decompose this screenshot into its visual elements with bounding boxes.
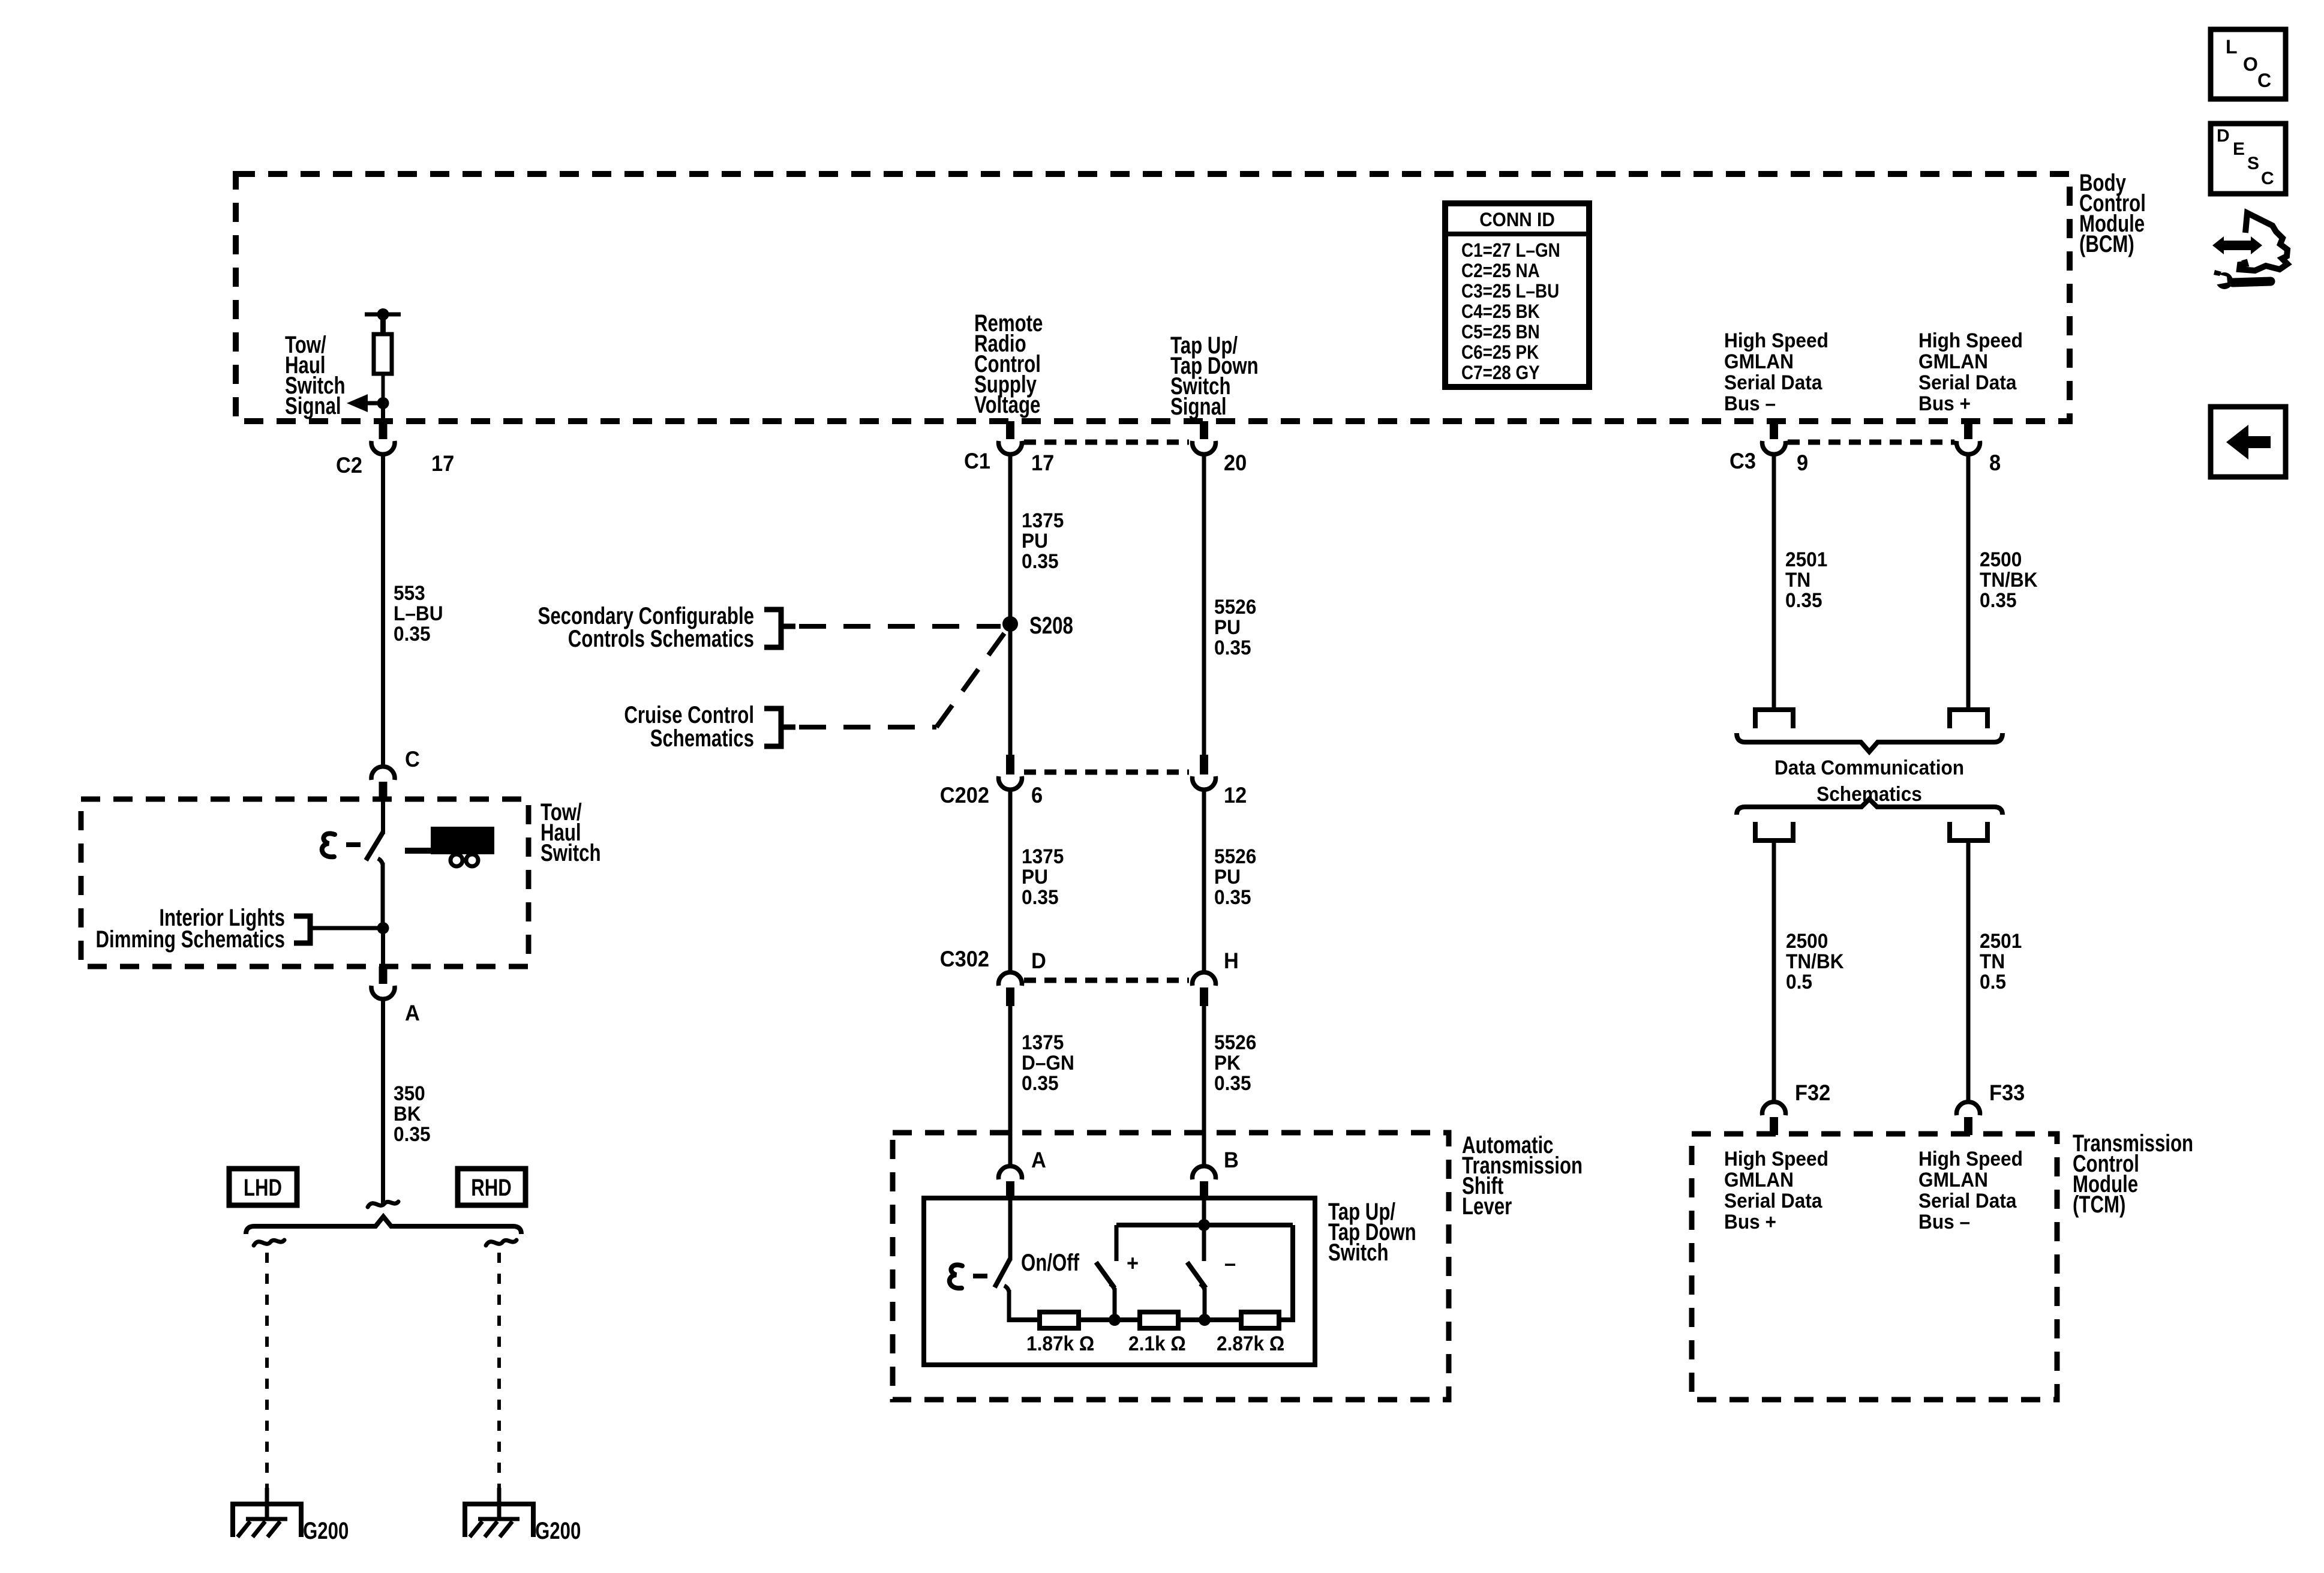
wire 5526 PK lower [1202, 1006, 1206, 1164]
trailer icon tongue [405, 848, 433, 854]
contact hook [378, 858, 383, 864]
svg-text:C1=27 L–GN: C1=27 L–GN [1461, 240, 1560, 261]
schematic navigation icon double arrow [2212, 236, 2262, 254]
wire node to C2 pin [381, 403, 385, 424]
svg-text:C1: C1 [964, 449, 990, 473]
plus switch blade [1096, 1262, 1115, 1288]
svg-text:Serial Data: Serial Data [1724, 1189, 1822, 1212]
interior lights callout bracket [294, 916, 310, 943]
svg-text:G200: G200 [535, 1517, 581, 1544]
signal arrow line [368, 401, 383, 406]
junction dot rail 1 [1109, 1314, 1121, 1326]
svg-text:0.35: 0.35 [1785, 589, 1822, 611]
wire 350 BK 0.35 [381, 998, 385, 1204]
ground bar [478, 1517, 520, 1521]
connector C3 pin 8 arc [1957, 441, 1980, 454]
ground bar [246, 1517, 287, 1521]
svg-text:TN/BK: TN/BK [1786, 950, 1844, 972]
svg-text:GMLAN: GMLAN [1724, 1168, 1794, 1191]
connector C1 arc [999, 441, 1022, 454]
svg-text:A: A [1031, 1148, 1046, 1172]
wire 1375 PU upper [1008, 454, 1013, 766]
svg-text:PU: PU [1214, 865, 1241, 888]
wire 2501 TN lower [1966, 840, 1971, 1101]
connector F32 arc [1762, 1102, 1786, 1115]
svg-text:2.1k Ω: 2.1k Ω [1128, 1332, 1186, 1355]
RHD dashed wire [497, 1253, 501, 1489]
tow/haul switch blade [366, 832, 383, 860]
BCM internal supply bar [365, 313, 401, 317]
svg-text:5526: 5526 [1214, 595, 1256, 618]
mechanical link dash [346, 842, 361, 847]
trailer icon wheel right [466, 854, 478, 866]
svg-text:9: 9 [1797, 451, 1808, 475]
svg-text:Dimming Schematics: Dimming Schematics [96, 926, 285, 953]
svg-text:0.35: 0.35 [1022, 1071, 1059, 1094]
svg-text:Schematics: Schematics [650, 725, 754, 752]
connector C202 pin 12 arc [1193, 776, 1216, 789]
ground hatch 1 [470, 1521, 482, 1537]
dashed callout line to S208 [799, 624, 1001, 629]
svg-text:A: A [405, 1001, 420, 1025]
connector C302 pin H arc [1193, 972, 1216, 986]
right rail riser [1290, 1225, 1295, 1322]
svg-text:(BCM): (BCM) [2079, 230, 2134, 257]
svg-text:F32: F32 [1795, 1080, 1830, 1105]
svg-text:GMLAN: GMLAN [1918, 350, 1988, 373]
svg-text:Bus –: Bus – [1918, 1210, 1970, 1233]
svg-text:Serial Data: Serial Data [1918, 371, 2017, 394]
Automatic Transmission Shift Lever dashed box [893, 1133, 1449, 1400]
secondary configurable callout bracket [764, 610, 781, 647]
svg-text:High Speed: High Speed [1918, 1147, 2023, 1170]
connector A pin terminal [379, 966, 388, 984]
connector C3 pin 8 terminal [1964, 421, 1972, 439]
svg-text:1.87k Ω: 1.87k Ω [1026, 1332, 1094, 1355]
signal junction node [377, 397, 389, 409]
wire B into switch [1202, 1199, 1206, 1261]
svg-text:L–BU: L–BU [394, 602, 443, 625]
svg-text:2.87k Ω: 2.87k Ω [1217, 1332, 1284, 1355]
ground bracket [233, 1504, 301, 1537]
connector B (shift lever) arc [1193, 1166, 1216, 1179]
svg-text:GMLAN: GMLAN [1724, 350, 1794, 373]
svg-text:2500: 2500 [1980, 548, 2022, 571]
svg-text:G200: G200 [303, 1517, 349, 1544]
LHD dashed wire [265, 1253, 269, 1489]
connector C202 pin 6 arc [999, 776, 1022, 789]
ground bracket [465, 1504, 533, 1537]
resistor pull-up in BCM [374, 334, 392, 374]
wire supply bar to resistor [380, 314, 386, 336]
svg-text:PU: PU [1022, 865, 1048, 888]
tow/haul switch mechanical link symbol [322, 833, 335, 857]
svg-text:1375: 1375 [1022, 1031, 1064, 1053]
trailer icon wheel left [451, 854, 463, 866]
svg-text:F33: F33 [1989, 1080, 2025, 1105]
Transmission Control Module (TCM) dashed box [1692, 1134, 2057, 1400]
svg-text:C7=28 GY: C7=28 GY [1461, 362, 1540, 383]
svg-text:Data Communication: Data Communication [1774, 756, 1964, 779]
wire 553 L-BU 0.35 [381, 454, 385, 766]
Body Control Module (BCM) dashed box [236, 174, 2070, 421]
svg-text:PK: PK [1214, 1051, 1241, 1074]
svg-text:17: 17 [1031, 451, 1054, 475]
bundle terminal lower right [1950, 822, 1987, 840]
connector C302 pin H terminal [1200, 987, 1208, 1006]
svg-text:5526: 5526 [1214, 1031, 1256, 1053]
svg-text:C4=25 BK: C4=25 BK [1461, 301, 1540, 322]
tow/haul switch lower contact [381, 863, 385, 930]
minus contact hook [1200, 1284, 1205, 1290]
svg-text:RHD: RHD [471, 1174, 512, 1201]
CONN ID table box [1445, 203, 1589, 387]
wire 5526 PU middle [1202, 789, 1206, 972]
plus switch upper contact [1115, 1225, 1119, 1261]
svg-text:0.35: 0.35 [394, 622, 431, 645]
connector F33 arc [1957, 1102, 1980, 1115]
dotted connector link C3 [1788, 440, 1954, 445]
svg-text:E: E [2233, 139, 2245, 159]
plus switch lower contact [1113, 1288, 1117, 1320]
LOC legend box [2211, 29, 2286, 99]
svg-text:0.35: 0.35 [1214, 1071, 1251, 1094]
Tap Up/Tap Down Switch inner box [924, 1198, 1315, 1365]
connector C2 pin 17 terminal [379, 421, 388, 439]
trailer icon body [431, 827, 494, 854]
svg-text:Voltage: Voltage [974, 391, 1040, 418]
svg-text:0.35: 0.35 [394, 1122, 431, 1145]
connector C1 pin 20 arc [1193, 441, 1216, 454]
connector C arc [371, 767, 395, 780]
schematic navigation icon wrench [2216, 272, 2233, 289]
svg-text:Controls Schematics: Controls Schematics [568, 625, 754, 652]
switch bottom rail [1009, 1317, 1293, 1322]
wire 5526 PU upper [1202, 454, 1206, 766]
svg-text:5526: 5526 [1214, 845, 1256, 867]
on/off mechanical link symbol [950, 1265, 962, 1288]
DESC legend box [2211, 124, 2286, 194]
svg-text:0.35: 0.35 [1214, 885, 1251, 908]
svg-text:2500: 2500 [1786, 929, 1828, 952]
connector F32 terminal [1770, 1117, 1778, 1135]
svg-text:PU: PU [1214, 616, 1241, 638]
svg-text:Signal: Signal [285, 392, 341, 419]
bundle terminal upper right [1950, 710, 1987, 728]
wire 1375 PU middle [1008, 789, 1013, 972]
svg-text:C5=25 BN: C5=25 BN [1461, 322, 1540, 343]
LHD box [229, 1169, 297, 1205]
wire switch to connector A [381, 928, 385, 968]
svg-text:Switch: Switch [1328, 1239, 1389, 1266]
svg-text:1375: 1375 [1022, 509, 1064, 532]
svg-text:(TCM): (TCM) [2073, 1191, 2125, 1218]
svg-text:L: L [2226, 36, 2238, 58]
svg-text:0.35: 0.35 [1214, 636, 1251, 659]
switch top rail [1116, 1223, 1293, 1227]
svg-text:TN/BK: TN/BK [1980, 568, 2038, 591]
svg-text:Switch: Switch [541, 839, 601, 866]
svg-text:High Speed: High Speed [1918, 329, 2023, 352]
svg-text:0.35: 0.35 [1980, 589, 2017, 611]
data comm brace upper [1737, 733, 2002, 752]
RHD box [458, 1169, 526, 1205]
svg-text:12: 12 [1224, 783, 1247, 807]
ground hatch 1 [238, 1521, 250, 1537]
connector C302 pin D terminal [1006, 987, 1014, 1006]
svg-text:PU: PU [1022, 529, 1048, 552]
svg-text:TN: TN [1980, 950, 2005, 972]
connector C202 pin 12 terminal [1200, 755, 1208, 775]
connector C pin terminal [379, 782, 388, 800]
wire 2500 TN/BK upper [1966, 454, 1971, 710]
dashed callout line horizontal [799, 725, 936, 730]
connector A arc [371, 986, 395, 999]
dashed callout diagonal to S208 [936, 632, 1005, 727]
wire 2500 TN/BK lower [1772, 840, 1776, 1101]
svg-text:1375: 1375 [1022, 845, 1064, 867]
svg-text:BK: BK [394, 1102, 421, 1125]
svg-text:0.5: 0.5 [1786, 970, 1812, 993]
svg-text:Serial Data: Serial Data [1724, 371, 1822, 394]
dotted connector link C302 [1024, 978, 1189, 983]
svg-text:TN: TN [1785, 568, 1810, 591]
connector C2 arc [371, 441, 395, 454]
svg-text:D: D [1031, 948, 1046, 973]
svg-text:S208: S208 [1029, 612, 1073, 639]
connector C302 pin D arc [999, 972, 1022, 986]
svg-text:S: S [2247, 154, 2259, 173]
back arrow legend box [2211, 407, 2286, 477]
dotted connector link C202 [1024, 770, 1189, 775]
resistor 2.1k box [1140, 1312, 1178, 1328]
minus switch blade [1187, 1262, 1206, 1288]
wire resistor to signal node [382, 374, 385, 405]
splice S208 [1002, 616, 1018, 632]
svg-text:17: 17 [431, 451, 454, 476]
Tow/Haul Switch dashed box [81, 799, 529, 966]
dotted connector link C1 [1024, 440, 1189, 445]
minus switch lower contact [1203, 1288, 1207, 1320]
connector B (shift lever) terminal [1200, 1181, 1208, 1199]
svg-text:B: B [1224, 1148, 1239, 1172]
svg-text:D: D [2217, 126, 2230, 146]
svg-text:C302: C302 [940, 947, 989, 971]
svg-text:2501: 2501 [1785, 548, 1827, 571]
resistor 2.87k box [1241, 1312, 1279, 1328]
ground wire stub [265, 1488, 269, 1520]
svg-text:C2=25 NA: C2=25 NA [1461, 260, 1540, 281]
svg-text:6: 6 [1031, 783, 1043, 807]
squiggle above LHD wire [254, 1240, 284, 1245]
data comm brace lower [1737, 799, 2002, 815]
svg-text:8: 8 [1989, 451, 2001, 475]
svg-text:CONN ID: CONN ID [1479, 209, 1555, 230]
on/off mechanical link dash [973, 1274, 987, 1278]
connector C202 pin 6 terminal [1006, 755, 1014, 775]
svg-text:C: C [405, 747, 420, 772]
option splice squiggle at wire end [368, 1202, 398, 1207]
svg-text:Lever: Lever [1462, 1193, 1512, 1220]
svg-text:High Speed: High Speed [1724, 329, 1828, 352]
svg-text:C: C [2261, 169, 2274, 188]
ground hatch 2 [485, 1521, 497, 1537]
svg-text:C3=25 L–BU: C3=25 L–BU [1461, 281, 1559, 302]
connector C1 pin 20 terminal [1200, 421, 1208, 439]
wire 1375 D-GN lower [1008, 1006, 1013, 1164]
wire interior lights tap [310, 926, 383, 930]
svg-text:GMLAN: GMLAN [1918, 1168, 1988, 1191]
svg-text:2501: 2501 [1980, 929, 2022, 952]
svg-text:C: C [2257, 70, 2271, 91]
junction dot B rail [1198, 1219, 1210, 1231]
connector C3 pin 9 terminal [1770, 421, 1778, 439]
on/off switch blade [995, 1259, 1010, 1287]
connector C1 pin 17 terminal [1006, 421, 1014, 439]
on/off lower contact [1007, 1290, 1011, 1322]
svg-text:Cruise Control: Cruise Control [624, 701, 754, 728]
ground wire stub [497, 1488, 502, 1520]
svg-text:D–GN: D–GN [1022, 1051, 1074, 1074]
svg-text:H: H [1224, 948, 1239, 973]
squiggle above RHD wire [486, 1240, 517, 1245]
CONN ID header separator [1445, 232, 1589, 236]
svg-text:0.5: 0.5 [1980, 970, 2006, 993]
node on supply bar [377, 308, 389, 320]
svg-text:C202: C202 [940, 783, 989, 807]
connector A (shift lever) arc [999, 1166, 1022, 1179]
svg-text:C2: C2 [336, 453, 362, 478]
resistor 1.87k box [1040, 1312, 1079, 1328]
wire pin to switch blade [381, 800, 385, 834]
connector C3 pin 9 arc [1762, 441, 1786, 454]
bundle terminal upper left [1755, 710, 1793, 728]
junction dot rail 2 [1199, 1314, 1211, 1326]
svg-text:High Speed: High Speed [1724, 1147, 1828, 1170]
on/off contact hook [1004, 1286, 1009, 1292]
svg-text:0.35: 0.35 [1022, 550, 1059, 572]
svg-text:On/Off: On/Off [1021, 1249, 1080, 1276]
svg-text:Bus +: Bus + [1918, 392, 1971, 415]
option split brace [246, 1217, 521, 1234]
ground hatch 3 [500, 1521, 512, 1537]
connector F33 terminal [1964, 1117, 1972, 1135]
bundle terminal lower left [1755, 822, 1793, 840]
svg-text:C6=25 PK: C6=25 PK [1461, 342, 1539, 363]
svg-text:0.35: 0.35 [1022, 885, 1059, 908]
svg-text:Bus +: Bus + [1724, 1210, 1776, 1233]
wire A into switch [1008, 1199, 1013, 1260]
svg-text:+: + [1127, 1251, 1139, 1275]
back arrow [2226, 425, 2271, 460]
svg-text:20: 20 [1224, 451, 1247, 475]
svg-text:C3: C3 [1730, 449, 1756, 473]
connector A (shift lever) terminal [1006, 1181, 1014, 1199]
svg-text:O: O [2243, 53, 2258, 75]
svg-text:–: – [1224, 1251, 1236, 1275]
svg-text:350: 350 [394, 1082, 425, 1104]
junction node to interior lights [377, 922, 389, 934]
svg-text:LHD: LHD [244, 1174, 282, 1201]
schematic navigation icon head outline [2239, 213, 2287, 271]
plus contact hook [1110, 1284, 1115, 1290]
svg-text:Serial Data: Serial Data [1918, 1189, 2017, 1212]
wire 2501 TN upper [1772, 454, 1776, 710]
ground hatch 3 [268, 1521, 280, 1537]
svg-text:Signal: Signal [1170, 393, 1227, 420]
ground hatch 2 [253, 1521, 265, 1537]
svg-text:Bus –: Bus – [1724, 392, 1776, 415]
signal arrow head [347, 394, 368, 412]
cruise control callout bracket [764, 709, 781, 746]
svg-text:553: 553 [394, 581, 425, 604]
